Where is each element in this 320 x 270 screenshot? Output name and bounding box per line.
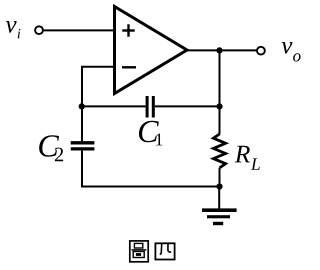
caption character: figure (tu) [130,241,148,262]
wire left rail C2 upper [81,106,83,141]
node feedback junction left [79,103,85,109]
wire left rail C2 lower [81,151,83,186]
op-amp U1 [115,7,188,94]
node feedback junction right [216,103,222,109]
op-amp triangle body [115,7,188,94]
capacitor C2 [71,143,95,149]
node vo output terminal [257,47,265,55]
caption character: four (si) [155,243,174,259]
wire right rail lower [219,168,221,187]
label C2 [39,135,63,161]
label RL [235,146,260,170]
op-amp inverting input marker - [122,66,136,68]
caption figure four (drawn glyphs) [130,241,175,262]
label vi [6,21,21,38]
ground [202,208,237,225]
wire ground stem [218,187,220,210]
wire feedback left segment [82,105,146,107]
wire bottom rail [81,186,220,188]
wire op-amp - input to left rail [82,67,113,107]
label vo [282,42,301,61]
wire vi terminal to op-amp + input [44,29,113,31]
wire feedback right segment [155,105,220,107]
label C1 [139,121,162,146]
node vi input terminal [35,26,43,34]
node output junction [216,47,222,53]
capacitor C1 [147,96,153,118]
op-amp non-inverting input marker + [122,29,134,31]
wire right rail upper [219,50,221,134]
wire op-amp output to vo terminal [186,49,257,51]
resistor RL [213,134,225,168]
node ground junction [216,183,222,189]
